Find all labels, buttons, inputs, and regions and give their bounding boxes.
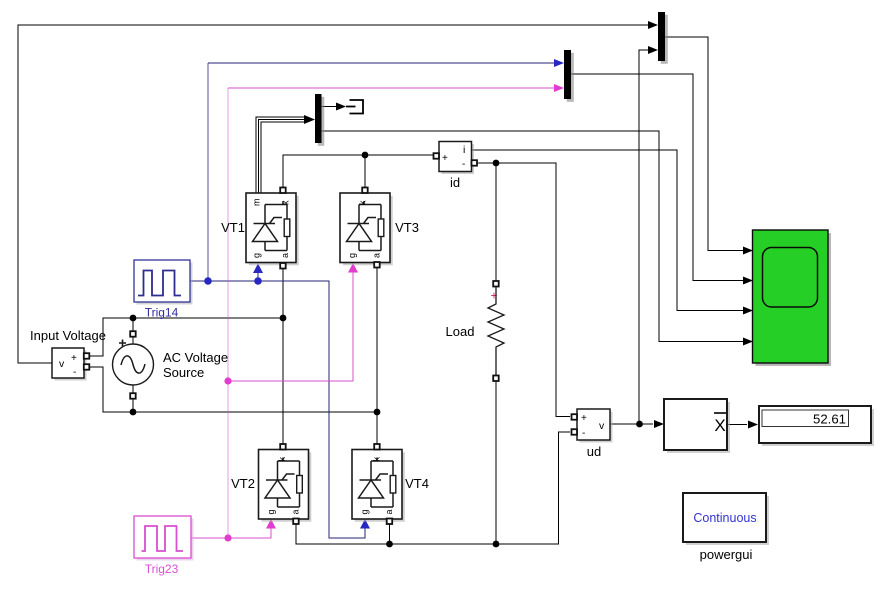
scope block [753,230,832,366]
AC voltage source [113,331,229,399]
svg-text:Trig14: Trig14 [145,306,179,320]
wire: AC source bottom stub [132,385,134,412]
wire: id - output to Load top and ud + input [476,163,570,417]
svg-text:-: - [73,367,76,378]
arrowhead into Scope input 3 [743,307,753,315]
thyristor VT1 [221,188,299,269]
wire: Trig14 output to VT1.g and VT4.g (navy) [190,273,365,539]
wire: Load bottom to bottom rail [495,381,497,544]
arrowhead into Scope input 2 [743,277,753,285]
node: junction id minus / Load [493,160,500,167]
mux Mux2 (voltages) [658,12,668,64]
wire: ud output riser to Mux2 input 2 [639,50,650,424]
wire: Demux output 2 (VT1 vak) to Scope input 4 [321,131,743,342]
arrowhead into Mux2 input 1 [648,21,658,29]
resistor Load [446,281,504,381]
wire: AC+ rail to VT1.a / VT2.k column [89,269,283,445]
thyristor VT2 [231,444,311,524]
arrowhead into VT2 gate (magenta) [266,519,276,529]
svg-text:k: k [277,457,287,462]
wire: Mean output to Display [727,424,747,426]
wire: Trig14 riser to Mux1 input 1 (navy) [207,63,209,281]
svg-text:g: g [360,509,370,514]
wire: VT1 m measurement bundle to Demux [256,117,306,193]
wire: Trig23 output to VT2.g (magenta) [191,528,271,538]
svg-text:i: i [463,144,465,156]
svg-text:id: id [450,175,460,190]
svg-text:k: k [358,200,368,205]
node: junction rail B to VT3/VT4 column [374,409,381,416]
svg-text:Source: Source [163,365,204,380]
arrowhead into Scope input 4 [743,338,753,346]
svg-text:a: a [291,509,301,514]
svg-text:VT3: VT3 [395,220,419,235]
arrowhead into VT4 gate (blue) [360,519,370,529]
arrowhead into VT3 gate (magenta) [348,263,358,273]
node: junction ud output / riser [636,421,643,428]
current measurement block id [434,142,478,191]
arrowhead into Display [748,421,758,429]
wire: Input Voltage v output to Mux2 input 1 (big loop) [18,25,650,363]
wire: Mux1 output to Scope input 2 [571,74,743,281]
svg-text:+: + [71,353,77,364]
terminator block [346,100,363,114]
wire: id current output to Scope input 3 [471,150,743,311]
wire: AC source top stub [132,318,134,345]
arrowhead into Mux1 input 2 (magenta) [554,84,564,92]
thyristor VT4 [352,444,429,524]
node: junction at VT1 gate [254,277,262,285]
arrowhead into Terminator [336,103,346,111]
svg-text:g: g [266,509,276,514]
arrowhead into Demux [304,115,315,124]
svg-text:k: k [281,200,291,205]
svg-text:AC Voltage: AC Voltage [163,350,228,365]
svg-text:VT4: VT4 [405,476,429,491]
node: junction AC bottom on rail B [130,409,137,416]
svg-text:a: a [280,253,290,258]
mean block X-bar [664,399,730,453]
svg-text:Continuous: Continuous [693,511,756,525]
arrowhead into VT1 gate (blue) [253,264,263,274]
svg-text:m: m [252,199,262,207]
pulse generator Trig23 [134,516,194,576]
svg-text:g: g [347,253,357,258]
node: junction bottom rail at VT4.a [386,541,393,548]
svg-text:Trig23: Trig23 [145,562,179,576]
svg-text:Input Voltage: Input Voltage [30,328,106,343]
pulse generator Trig14 [134,260,193,320]
svg-text:a: a [372,253,382,258]
node: junction Trig14 output [204,277,212,285]
svg-text:VT2: VT2 [231,476,255,491]
svg-text:powergui: powergui [700,547,753,562]
svg-text:VT1: VT1 [221,220,245,235]
voltage measurement block ud [572,409,613,459]
arrowhead into Mux2 input 2 [648,46,658,54]
wire: Demux output 1 to Terminator [321,106,336,108]
node: junction Trig23 riser to VT3 branch [224,377,231,384]
node: junction AC top on rail A [130,315,137,322]
display block 52.61 [759,406,874,446]
arrowhead into Mean [654,420,664,428]
arrowhead into Scope input 1 [743,247,753,255]
svg-text:Load: Load [446,324,475,339]
svg-text:v: v [599,420,605,432]
arrowhead into Mux1 input 1 (blue) [554,59,564,67]
svg-text:-: - [462,159,465,170]
svg-text:+: + [581,413,587,424]
wire: bottom rail VT2.a / VT4.a / Load to ud - input [296,432,570,544]
wire: cathode rail VT1.k / VT3.k to id + input [283,155,433,188]
thyristor VT3 [340,188,419,268]
svg-text:v: v [59,358,65,370]
svg-text:k: k [372,457,382,462]
wire: ud output to Mean block [610,423,653,425]
node: junction bottom rail at Load [493,541,500,548]
wire: Mux2 output to Scope input 1 [665,37,743,251]
mux Mux1 (gate pulses) [564,50,574,102]
wire: Trig23 branch to VT3.g (magenta) [228,273,353,382]
demux Demux (VT1 m signals) [315,94,324,146]
wire: AC- rail to VT3.a / VT4.k column [89,268,377,445]
svg-text:X: X [714,416,725,435]
node: junction rail A to VT1/VT2 column [280,315,287,322]
svg-text:-: - [582,428,585,439]
svg-text:a: a [384,509,394,514]
node: junction Trig23 output [224,534,231,541]
svg-text:+: + [442,153,448,164]
svg-text:g: g [252,253,262,258]
svg-text:52.61: 52.61 [813,412,846,427]
svg-text:ud: ud [587,444,601,459]
wire: Trig23 riser to Mux1 input 2 (magenta) [227,88,229,538]
node: junction on cathode rail above VT3 [362,152,369,159]
powergui block [683,493,769,562]
voltage measurement block Input Voltage [30,328,106,381]
